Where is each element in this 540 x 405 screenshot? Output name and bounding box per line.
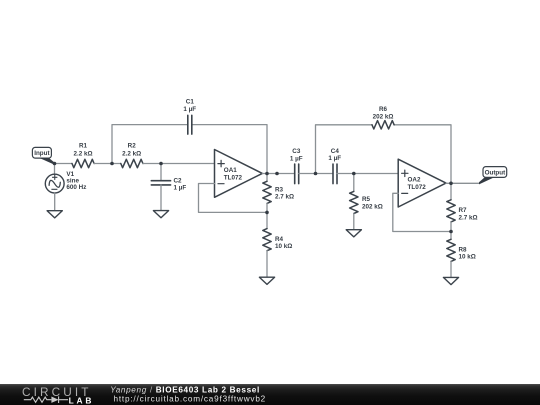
wire node D to R4 <box>266 212 268 228</box>
svg-text:R3: R3 <box>275 186 284 193</box>
wire OA1 output to C3 <box>267 173 295 175</box>
svg-text:10 kΩ: 10 kΩ <box>275 243 292 250</box>
output flag <box>479 167 507 185</box>
svg-text:OA2: OA2 <box>408 177 421 184</box>
svg-text:202 kΩ: 202 kΩ <box>362 204 383 211</box>
label C3 value <box>290 148 303 162</box>
wire V1 to ground <box>54 193 56 211</box>
ground for R4 <box>259 277 274 284</box>
node OA2 output <box>449 182 453 186</box>
wire C1 feedback: node B up, across, down to OA1 output <box>112 125 267 174</box>
svg-text:2.7 kΩ: 2.7 kΩ <box>459 215 478 222</box>
ground for R8 <box>443 277 458 284</box>
node OA1 output <box>265 172 269 176</box>
label C4 value <box>328 148 341 162</box>
svg-text:202 kΩ: 202 kΩ <box>373 113 394 120</box>
label C2 value <box>174 177 187 191</box>
svg-text:C4: C4 <box>331 148 340 155</box>
ground for C2 <box>153 211 168 218</box>
op-amp OA2 <box>398 159 446 207</box>
wire OA2 output to output flag <box>451 182 480 184</box>
svg-text:R7: R7 <box>459 207 468 214</box>
node C junction R2/C2 <box>159 162 163 166</box>
label R2 value <box>122 143 141 158</box>
wire R1 to node B <box>94 163 112 165</box>
label R6 value <box>373 106 394 120</box>
capacitor C4 <box>333 164 337 184</box>
svg-text:LAB: LAB <box>69 395 95 405</box>
resistor R4 <box>263 229 271 251</box>
node stage1 out <box>275 172 279 176</box>
wire C4 to OA2 plus input <box>337 173 398 175</box>
svg-text:R4: R4 <box>275 236 284 243</box>
wire R4 to ground <box>266 251 268 278</box>
op-amp OA1 <box>215 150 263 198</box>
resistor R2 <box>121 159 143 167</box>
wire R5 to ground <box>353 214 355 230</box>
wire node G to R8 <box>450 232 452 240</box>
wire OA1 minus feedback <box>199 184 268 213</box>
label V1 value <box>66 171 86 191</box>
wire OA1 output to R3 top <box>262 174 267 182</box>
ground for V1 <box>47 211 62 218</box>
resistor R3 <box>263 181 271 203</box>
capacitor C1 <box>188 115 192 134</box>
ground for R5 <box>346 230 361 237</box>
svg-text:R8: R8 <box>459 246 468 253</box>
svg-text:C3: C3 <box>292 148 301 155</box>
wire OA2 minus feedback <box>393 193 451 231</box>
node D junction R3/R4/feedback <box>265 211 269 215</box>
svg-text:R1: R1 <box>79 143 88 150</box>
node E junction C3/R6 <box>314 172 318 176</box>
wire R2 to OA1 plus input <box>143 163 215 165</box>
svg-text:TL072: TL072 <box>408 184 427 191</box>
svg-text:R6: R6 <box>379 106 388 113</box>
wire node A down to V1 <box>54 164 56 175</box>
wire R8 to ground <box>450 261 452 277</box>
voltage source V1 sine <box>45 174 64 193</box>
svg-text:10 kΩ: 10 kΩ <box>459 254 476 261</box>
label R3 value <box>275 186 294 200</box>
footer bar <box>0 384 540 405</box>
svg-text:1 µF: 1 µF <box>328 155 341 162</box>
svg-text:2.2 kΩ: 2.2 kΩ <box>73 151 92 158</box>
svg-text:C2: C2 <box>174 177 183 184</box>
wire C2 to ground <box>160 185 162 211</box>
capacitor C2 <box>151 181 170 185</box>
resistor R1 <box>72 159 94 167</box>
label R1 value <box>73 143 92 158</box>
svg-text:C1: C1 <box>186 99 195 106</box>
svg-text:TL072: TL072 <box>224 174 243 181</box>
wire R3 to node D <box>266 203 268 212</box>
resistor R7 <box>447 200 455 222</box>
svg-text:Output: Output <box>485 170 507 177</box>
wire input node to R1 <box>55 163 73 165</box>
label R7 value <box>459 207 478 221</box>
svg-text:2.7 kΩ: 2.7 kΩ <box>275 194 294 201</box>
svg-text:R5: R5 <box>362 196 371 203</box>
wire node F down to R5 <box>353 174 355 192</box>
resistor R6 <box>372 121 394 129</box>
node B junction R1/R2/C1 <box>110 162 114 166</box>
CircuitLab logo <box>22 385 94 405</box>
input flag <box>32 147 55 165</box>
svg-text:OA1: OA1 <box>224 167 237 174</box>
wire R6 feedback loop <box>316 125 452 184</box>
wire node B to R2 <box>112 163 121 165</box>
svg-text:Input: Input <box>34 150 50 157</box>
svg-text:1 µF: 1 µF <box>290 155 303 162</box>
resistor R5 <box>350 191 358 213</box>
wire C3 to C4 <box>299 173 333 175</box>
wire node C down to C2 <box>160 164 162 181</box>
svg-text:600 Hz: 600 Hz <box>66 184 86 191</box>
label R5 value <box>362 196 383 211</box>
wire R7 to node G <box>450 222 452 232</box>
svg-text:http://circuitlab.com/ca9f3fft: http://circuitlab.com/ca9f3fftwwvb2 <box>114 395 267 404</box>
label C1 value <box>183 99 196 113</box>
node G junction R7/R8/feedback <box>449 230 453 234</box>
label R4 value <box>275 236 292 250</box>
capacitor C3 <box>295 164 299 184</box>
svg-text:1 µF: 1 µF <box>183 106 196 113</box>
node A input/V1 <box>53 162 57 166</box>
svg-text:R2: R2 <box>128 143 137 150</box>
svg-text:1 µF: 1 µF <box>174 185 187 192</box>
resistor R8 <box>447 239 455 261</box>
label R8 value <box>459 246 476 260</box>
svg-text:Yanpeng / BIOE6403 Lab 2 Besse: Yanpeng / BIOE6403 Lab 2 Bessel <box>110 386 260 395</box>
wire OA2 output to R7 <box>446 183 451 200</box>
node F junction C4/R5 <box>352 172 356 176</box>
svg-text:2.2 kΩ: 2.2 kΩ <box>122 151 141 158</box>
